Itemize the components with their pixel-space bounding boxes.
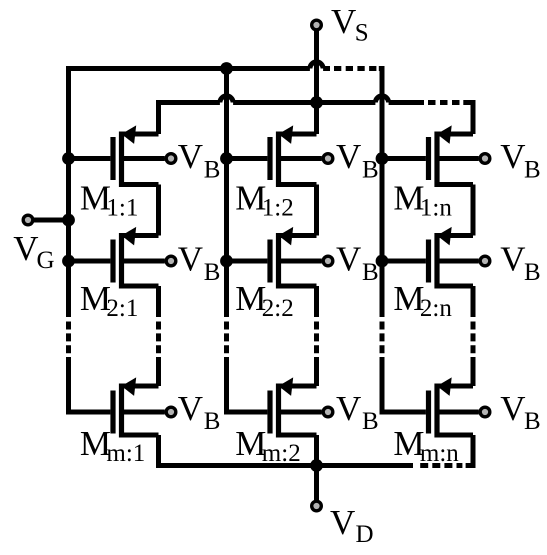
label M2:2 <box>235 279 293 322</box>
label VB of M1:2 <box>336 137 379 183</box>
node column-2 bus / M1:2 gate <box>220 152 233 165</box>
wire Mm:2 drain to drain rail <box>314 435 319 466</box>
terminal VG <box>23 215 68 225</box>
svg-text:V: V <box>336 137 361 176</box>
svg-text:V: V <box>178 137 203 176</box>
svg-text:S: S <box>355 20 369 47</box>
svg-text:B: B <box>204 408 221 435</box>
svg-text:V: V <box>330 503 355 542</box>
svg-text:B: B <box>362 259 379 286</box>
transistor M1:n <box>382 125 479 187</box>
terminal VB of M2:1 <box>166 256 176 266</box>
svg-text:B: B <box>524 408 541 435</box>
terminal VB of Mm:1 <box>166 407 176 417</box>
label VB of Mm:1 <box>178 389 221 435</box>
wire M1:1 drain to M2:1 source <box>156 185 161 236</box>
svg-text:V: V <box>500 137 525 176</box>
label Mm:1 <box>80 424 145 467</box>
svg-text:B: B <box>204 156 221 183</box>
wire Mm:1 drain to drain rail <box>156 435 161 466</box>
svg-text:V: V <box>13 229 38 268</box>
wire VD drain rail <box>156 463 476 468</box>
node VG bus / M2:1 gate <box>62 255 75 268</box>
svg-text:G: G <box>37 247 55 274</box>
wire M1:2 drain to M2:2 source <box>314 185 319 236</box>
transistor Mm:n <box>382 377 479 437</box>
svg-text:V: V <box>178 389 203 428</box>
node VG bus / M1:1 gate <box>62 152 75 165</box>
label VB of M2:2 <box>336 240 379 286</box>
label M2:n <box>393 279 452 322</box>
svg-text:V: V <box>336 240 361 279</box>
label M1:n <box>393 179 452 222</box>
wire VS stem below rail to M1:2 source <box>314 103 319 135</box>
label M1:1 <box>80 179 138 222</box>
label M1:2 <box>235 179 293 222</box>
terminal VB of M2:n <box>480 256 490 266</box>
svg-text:1:1: 1:1 <box>106 195 138 222</box>
wire M2:1 drain to Mm:1 source (column continues) <box>156 286 161 386</box>
node VS stem / source rail junction <box>310 96 323 109</box>
terminal VB of M1:n <box>480 154 490 164</box>
transistor M2:1 <box>69 227 165 289</box>
wire VS source rail <box>156 96 476 103</box>
wire M2:n drain to Mm:n source (column continues) <box>471 286 476 386</box>
node column-n bus / M2:n gate <box>376 255 389 268</box>
label M2:1 <box>80 279 138 322</box>
terminal VB of M1:1 <box>166 154 176 164</box>
transistor Mm:1 <box>69 377 165 437</box>
svg-text:B: B <box>524 156 541 183</box>
svg-text:V: V <box>336 389 361 428</box>
terminal VB of M1:2 <box>323 154 333 164</box>
transistor M1:1 <box>69 125 165 187</box>
wire source rail corner down to M1:n source <box>471 100 476 134</box>
svg-text:1:2: 1:2 <box>262 195 294 222</box>
svg-text:B: B <box>524 259 541 286</box>
label VD <box>330 503 374 548</box>
transistor Mm:2 <box>227 377 322 437</box>
wire VG bus (column-1 gate bus) <box>66 66 71 415</box>
svg-text:1:n: 1:n <box>420 195 452 222</box>
label VB of Mm:2 <box>336 389 379 435</box>
label VS <box>331 2 369 47</box>
node column-2 bus / M2:2 gate <box>220 255 233 268</box>
svg-text:B: B <box>362 408 379 435</box>
label VB of M2:1 <box>178 240 221 286</box>
wire M1:n drain to M2:n source <box>471 185 476 236</box>
svg-text:V: V <box>178 240 203 279</box>
node gate rail / column-2 gate bus junction <box>220 62 233 75</box>
svg-text:2:1: 2:1 <box>106 295 138 322</box>
label VB of M1:1 <box>178 137 221 183</box>
terminal VD <box>312 466 322 511</box>
wire column-n gate bus <box>380 66 385 415</box>
svg-text:B: B <box>362 156 379 183</box>
terminal VS <box>312 20 322 100</box>
terminal VB of Mm:n <box>480 407 490 417</box>
wire Mm:n drain to drain rail <box>471 435 476 466</box>
svg-text:D: D <box>356 521 374 548</box>
terminal VB of M2:2 <box>323 256 333 266</box>
label Mm:2 <box>235 424 300 467</box>
label VB of M2:n <box>500 240 540 286</box>
node VD junction <box>310 459 323 472</box>
svg-text:V: V <box>331 2 356 41</box>
svg-text:V: V <box>500 240 525 279</box>
svg-text:m:2: m:2 <box>262 440 301 467</box>
node VG terminal tap <box>62 214 75 227</box>
svg-text:m:n: m:n <box>420 440 459 467</box>
svg-text:2:2: 2:2 <box>262 295 294 322</box>
transistor M2:2 <box>227 227 322 289</box>
svg-text:2:n: 2:n <box>420 295 452 322</box>
wire gate rail from VG bus to column gate buses <box>69 62 385 69</box>
label Mm:n <box>393 424 459 467</box>
wire column-2 gate bus <box>224 69 229 415</box>
label VB of Mm:n <box>500 389 540 435</box>
wire source rail corner down to M1:1 source <box>156 100 161 134</box>
transistor M2:n <box>382 227 479 289</box>
transistor M1:2 <box>227 125 322 187</box>
svg-text:m:1: m:1 <box>106 440 145 467</box>
terminal VB of Mm:2 <box>323 407 333 417</box>
label VG <box>13 229 54 274</box>
svg-text:V: V <box>500 389 525 428</box>
svg-text:B: B <box>204 259 221 286</box>
label VB of M1:n <box>500 137 540 183</box>
wire M2:2 drain to Mm:2 source (column continues) <box>314 286 319 386</box>
node column-n bus / M1:n gate <box>376 152 389 165</box>
